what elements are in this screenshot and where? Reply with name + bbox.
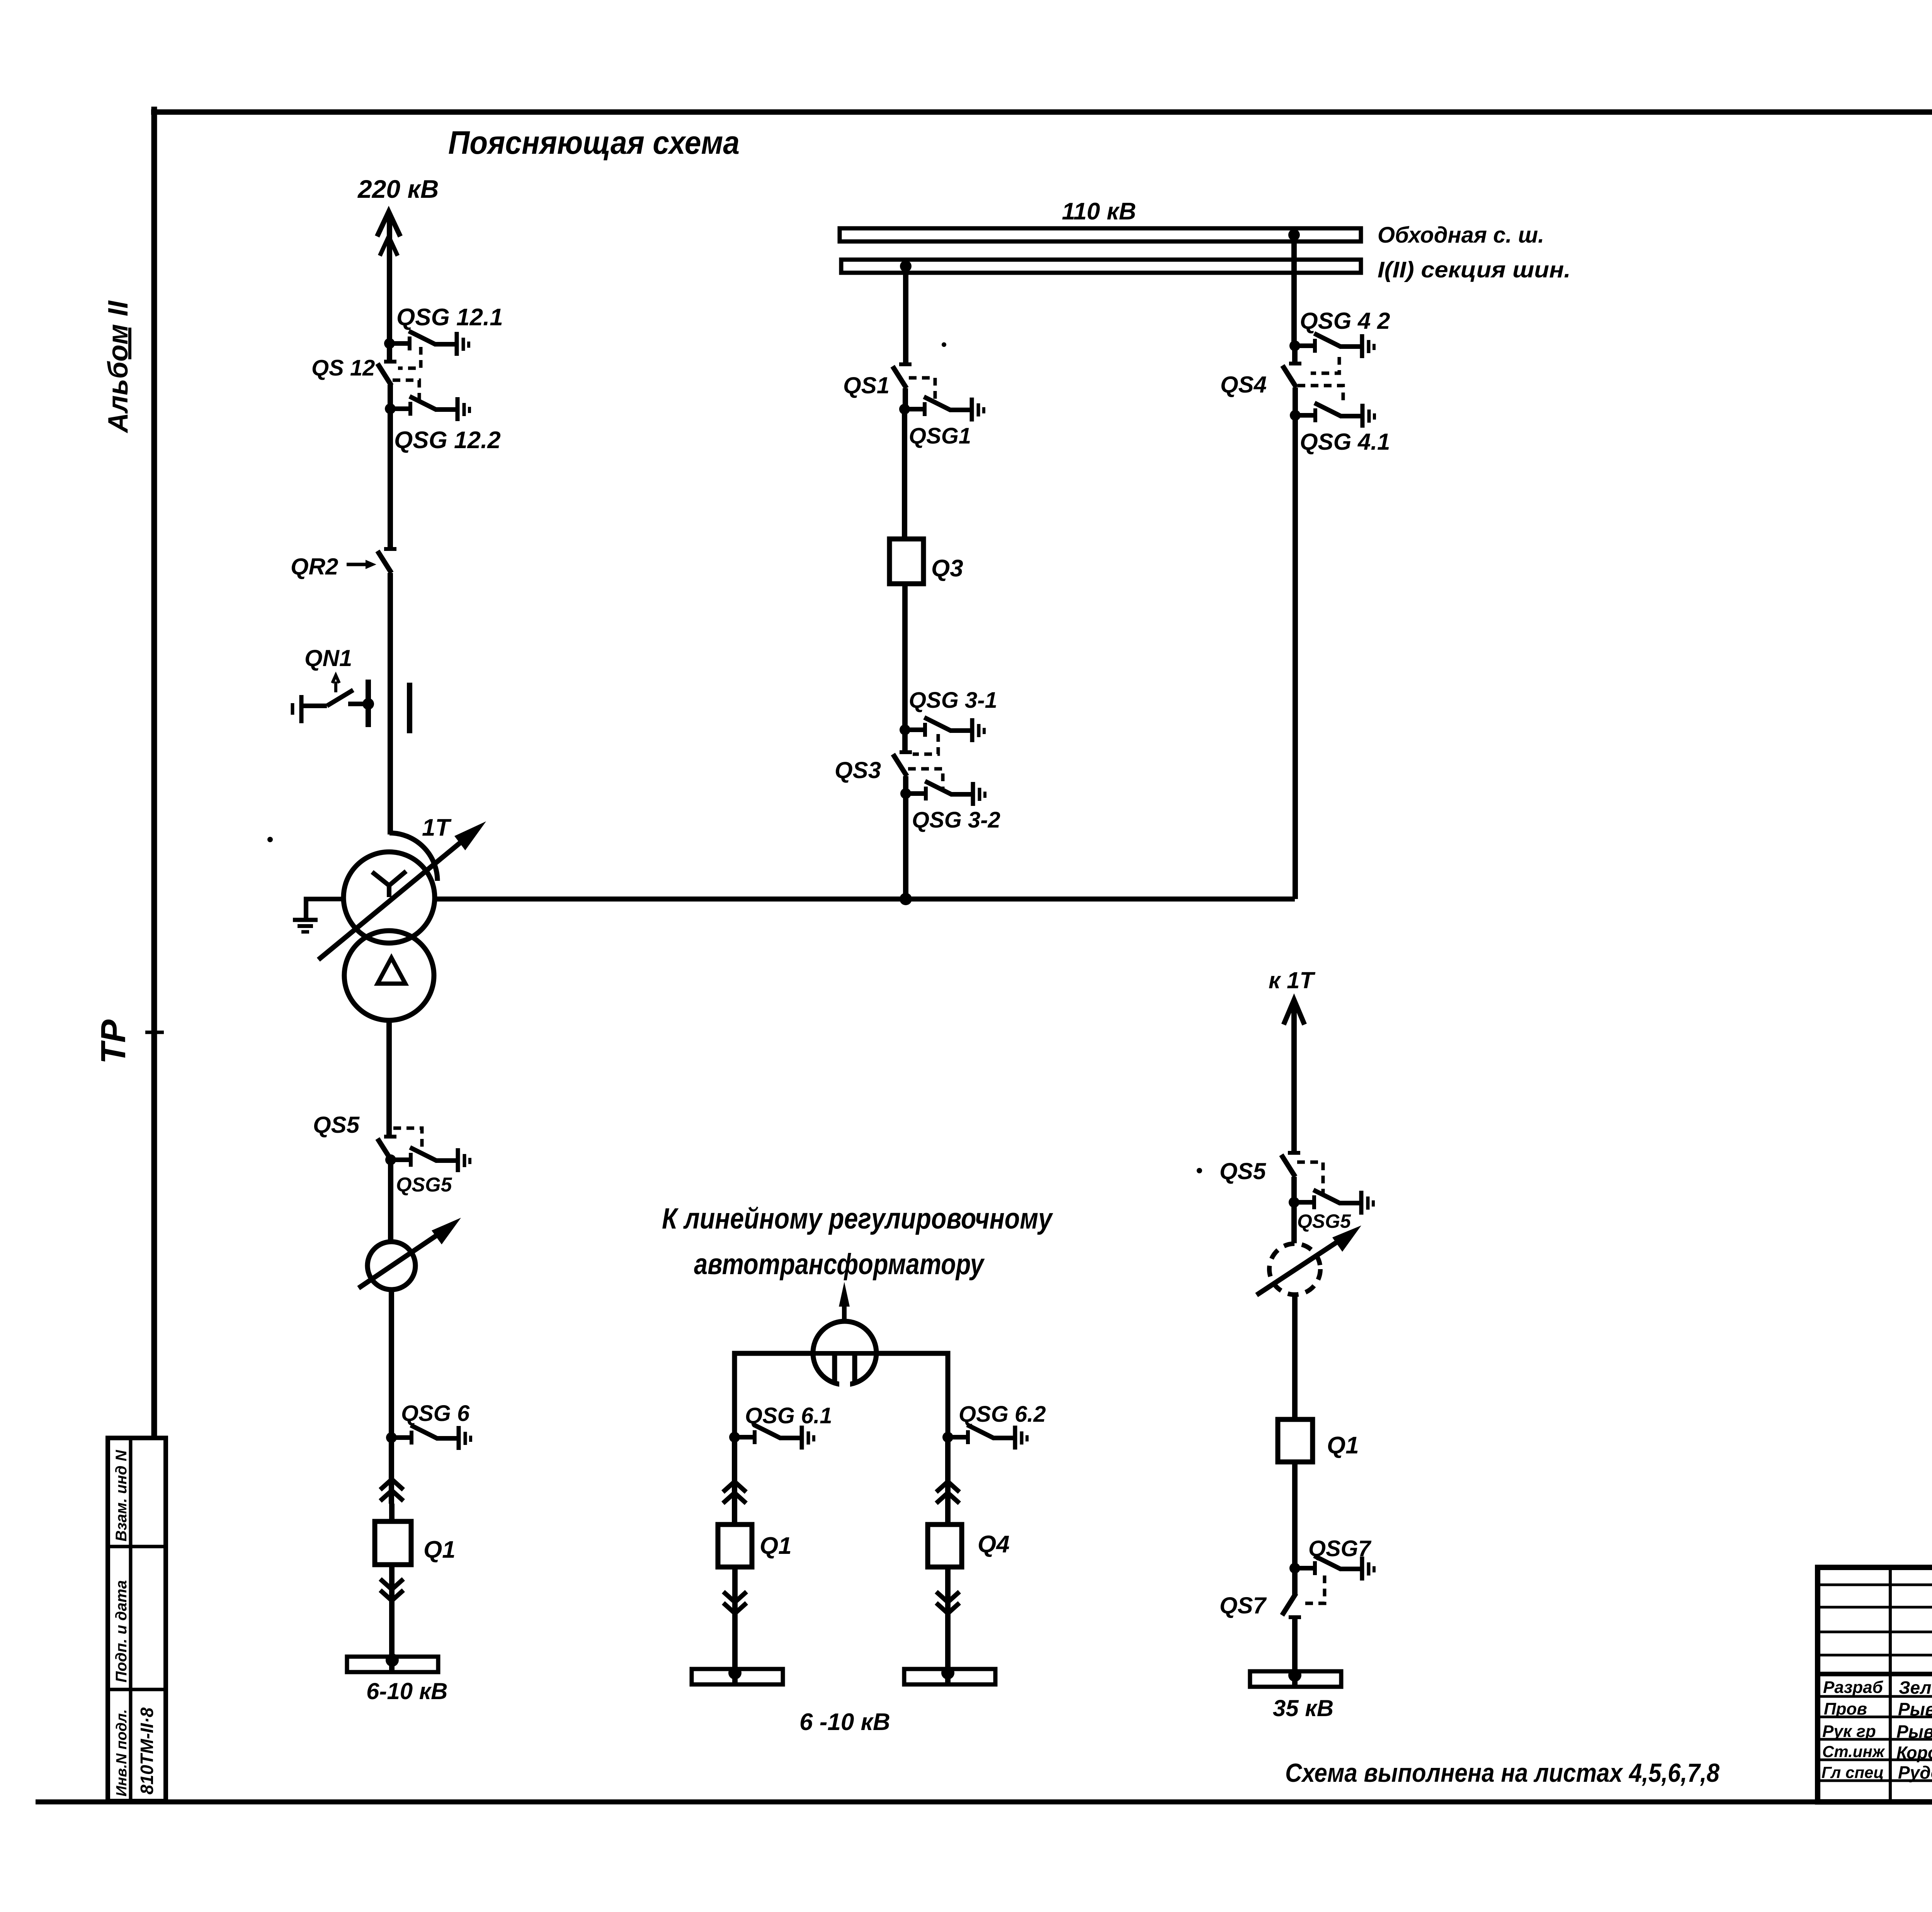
- stray speck: [942, 342, 946, 347]
- breaker Q4: [928, 1525, 962, 1567]
- drawout chevrons upper Q4: [936, 1482, 959, 1503]
- grounding switch QSG5 right: [1289, 1190, 1373, 1215]
- svg-text:QSG 6: QSG 6: [401, 1401, 470, 1426]
- bus 35kV: [1250, 1671, 1341, 1687]
- title block horizontal lines: [1818, 1585, 1932, 1781]
- wire Q1 to lower chevrons: [389, 1565, 395, 1601]
- bus 6-10kV mid-left: [692, 1669, 783, 1684]
- svg-text:QS4: QS4: [1220, 372, 1267, 398]
- svg-text:QS3: QS3: [835, 757, 881, 783]
- left margin stamp table: [108, 1438, 166, 1801]
- svg-text:QS1: QS1: [843, 372, 889, 398]
- short-circuiter QN1: [293, 675, 410, 733]
- wire Q1 right to QSG7: [1292, 1462, 1298, 1568]
- disconnector QS3: [893, 752, 912, 776]
- wire Q1 mid to lower chevrons: [732, 1567, 738, 1613]
- svg-text:810ТМ-II·8: 810ТМ-II·8: [137, 1707, 157, 1795]
- wire to bus mid-right: [945, 1613, 951, 1684]
- drawout chevrons lower Q4: [936, 1592, 959, 1613]
- svg-text:QSG 12.2: QSG 12.2: [394, 427, 501, 454]
- svg-text:Q1: Q1: [1327, 1432, 1359, 1459]
- wire QR2 down to QN1 zone: [388, 573, 393, 834]
- svg-text:I(II) секция шин.: I(II) секция шин.: [1378, 257, 1571, 282]
- svg-text:1Т: 1Т: [422, 814, 452, 841]
- wire to bus mid-left: [732, 1613, 738, 1684]
- wire 1T to 110kV section: [435, 897, 1295, 902]
- underline of II: [128, 328, 131, 359]
- wire QSG4.1 down to tie line corner: [1293, 415, 1298, 899]
- arrow across reactor: [359, 1218, 461, 1288]
- node on section bus: [900, 260, 912, 272]
- svg-text:QSG 4.1: QSG 4.1: [1300, 429, 1390, 455]
- wire Q4 to lower chevrons: [945, 1567, 951, 1613]
- wire QS12 to QSG12.2: [388, 385, 393, 409]
- svg-text:QR2: QR2: [291, 554, 338, 580]
- node on tie line: [900, 893, 912, 905]
- drawout chevrons upper Q1 mid: [723, 1482, 746, 1503]
- svg-text:QS5: QS5: [313, 1112, 360, 1138]
- grounding switch QSG5: [385, 1147, 470, 1172]
- interlock dashes QS1-QSG1: [909, 378, 935, 403]
- ground symbol at 1T: [293, 920, 318, 932]
- svg-text:Инв.N подл.: Инв.N подл.: [114, 1709, 130, 1796]
- svg-text:автотрансформатору: автотрансформатору: [694, 1248, 985, 1281]
- bus 6-10kV mid-right: [904, 1669, 995, 1684]
- svg-text:Q1: Q1: [760, 1533, 792, 1559]
- wire QS4 column from bypass bus: [1291, 235, 1297, 346]
- wire QS7 to 35kV bus: [1292, 1617, 1298, 1686]
- svg-text:QSG 4 2: QSG 4 2: [1300, 308, 1390, 334]
- wire left from winding: [735, 1353, 814, 1437]
- svg-text:к 1Т: к 1Т: [1269, 967, 1315, 993]
- svg-text:QN1: QN1: [304, 645, 352, 671]
- svg-text:QSG1: QSG1: [909, 423, 971, 449]
- wire QSG3-1 to QS3: [902, 730, 908, 752]
- svg-text:Подп. и дата: Подп. и дата: [113, 1580, 130, 1683]
- wire к 1Т down to QS5 right: [1291, 1004, 1297, 1153]
- svg-text:110 кВ: 110 кВ: [1062, 198, 1136, 225]
- stray speck: [267, 837, 273, 842]
- wire QSG1 down to Q3: [902, 409, 907, 539]
- regulating transformer winding: [813, 1321, 876, 1391]
- arrow up к 1Т: [1284, 1000, 1304, 1025]
- wire QSG4.2 to QS4: [1292, 346, 1298, 364]
- wire right from winding: [876, 1353, 948, 1437]
- disconnector QR2: [378, 549, 396, 573]
- title block vertical lines: [1890, 1567, 1932, 1802]
- interlock dashes QS3-QSG3.1: [913, 734, 938, 754]
- disconnector QS4: [1282, 364, 1301, 387]
- wire QSG6.1 to chevrons: [732, 1437, 737, 1506]
- grounding switch QSG1: [899, 397, 984, 421]
- svg-text:Зеличкина: Зеличкина: [1899, 1677, 1932, 1698]
- grounding switch QSG4.1: [1290, 403, 1374, 428]
- svg-text:220 кВ: 220 кВ: [357, 175, 439, 203]
- svg-text:ТР: ТР: [94, 1019, 133, 1064]
- node on bypass bus: [1288, 229, 1300, 241]
- svg-text:35 кВ: 35 кВ: [1273, 1695, 1333, 1721]
- junction dot at 35kV bus: [1288, 1669, 1301, 1682]
- svg-text:QSG 6.2: QSG 6.2: [959, 1402, 1046, 1427]
- interlock dashes QS5-QSG5: [393, 1128, 422, 1154]
- svg-text:Гл спец: Гл спец: [1821, 1763, 1884, 1781]
- reactor with arrow: [367, 1242, 415, 1290]
- breaker Q3: [889, 539, 923, 584]
- grounding switch QSG6: [386, 1425, 471, 1450]
- svg-text:QSG5: QSG5: [396, 1174, 452, 1196]
- disconnector QS7 inverted: [1282, 1593, 1301, 1617]
- svg-text:Альбом II: Альбом II: [103, 300, 134, 433]
- svg-text:QSG5: QSG5: [1297, 1210, 1351, 1232]
- svg-text:QS 12: QS 12: [311, 355, 375, 381]
- grounding switch QSG4.2: [1289, 333, 1374, 358]
- grounding switch QSG12.1: [384, 331, 469, 356]
- svg-text:Рук гр: Рук гр: [1822, 1722, 1876, 1741]
- wire QSG5 right to reactor: [1291, 1202, 1297, 1243]
- svg-text:Рывкина: Рывкина: [1898, 1699, 1932, 1719]
- breaker Q1 mid: [718, 1525, 752, 1567]
- breaker Q1 right: [1278, 1419, 1313, 1462]
- junction dot at mid-left bus: [728, 1666, 742, 1679]
- junction dot at mid-right bus: [941, 1666, 954, 1679]
- wire QSG7 to QS7: [1292, 1568, 1298, 1596]
- svg-text:QS5: QS5: [1219, 1158, 1267, 1184]
- svg-text:QS7: QS7: [1219, 1592, 1267, 1618]
- wire QS5 to QSG5: [388, 1159, 393, 1160]
- interlock dashes QS4-QSG4.2: [1311, 357, 1339, 373]
- svg-text:Рывкина: Рывкина: [1896, 1722, 1932, 1742]
- wire QSG6 to chevrons: [389, 1438, 394, 1504]
- drawout chevrons upper Q1 left: [380, 1479, 403, 1501]
- wire 1T down to QS5: [386, 1020, 392, 1137]
- wire reactor to QSG6: [389, 1290, 394, 1438]
- interlock dashes QS12-QSG12.2: [393, 380, 419, 404]
- wire QS4 to QSG4.1: [1293, 387, 1298, 415]
- stray dot: [1197, 1168, 1202, 1173]
- neutral ground of 1T: [306, 899, 344, 918]
- wire QSG3-2 down to tie line: [903, 794, 908, 899]
- svg-text:Q1: Q1: [423, 1536, 456, 1563]
- arrow pointing to QR2: [347, 560, 376, 569]
- wire QSG12.1 to QS12: [387, 343, 392, 362]
- bus 6-10kV left: [347, 1657, 438, 1672]
- svg-text:Q3: Q3: [931, 555, 963, 582]
- svg-text:6-10 кВ: 6-10 кВ: [366, 1678, 448, 1704]
- svg-text:Поясняющая схема: Поясняющая схема: [448, 124, 740, 161]
- arrow up to 220 kV line: [377, 212, 400, 256]
- drawout chevrons lower Q1 mid: [723, 1592, 747, 1613]
- junction dot at bus: [386, 1654, 399, 1667]
- svg-text:Схема выполнена на листах 4,5,: Схема выполнена на листах 4,5,6,7,8: [1285, 1758, 1719, 1788]
- svg-text:Пров: Пров: [1824, 1700, 1867, 1718]
- disconnector QS12: [378, 362, 396, 386]
- interlock dashes QSG7-QS7: [1301, 1575, 1325, 1603]
- fold mark on left border: [145, 1031, 164, 1034]
- svg-text:Обходная с. ш.: Обходная с. ш.: [1378, 223, 1544, 248]
- wire QS5 to QSG5 right: [1291, 1177, 1297, 1202]
- interlock dashes QS5r-QSG5r: [1297, 1162, 1323, 1196]
- grounding switch QSG6.2: [942, 1425, 1027, 1450]
- disconnector QS1: [893, 364, 912, 388]
- svg-text:К линейному регулировочному: К линейному регулировочному: [662, 1202, 1053, 1235]
- interlock dashes QS4-QSG4.1: [1298, 386, 1343, 402]
- grounding switch QSG6.1: [729, 1425, 814, 1450]
- bypass busbar 110kV: [840, 228, 1361, 241]
- grounding switch QSG7: [1289, 1556, 1374, 1581]
- wire QSG5 to arrester: [388, 1160, 393, 1242]
- wire QS1 to QSG1: [903, 388, 908, 409]
- drawout chevrons lower Q1 left: [380, 1579, 403, 1601]
- wire Q3 down to QSG3-1: [902, 584, 908, 730]
- svg-text:Q4: Q4: [978, 1531, 1010, 1558]
- svg-text:QSG 3-1: QSG 3-1: [909, 688, 997, 713]
- grounding switch QSG3-1: [900, 717, 984, 742]
- grounding switch QSG12.2: [385, 396, 469, 421]
- svg-text:Руденко: Руденко: [1898, 1762, 1932, 1783]
- breaker Q1 left: [375, 1521, 411, 1565]
- wire to Q4: [945, 1506, 951, 1525]
- wire QS1 column from section bus: [903, 266, 908, 364]
- wire to Q1 mid: [732, 1506, 737, 1525]
- disconnector QS5 right: [1281, 1153, 1300, 1177]
- arrow across dashed reactor: [1257, 1225, 1361, 1295]
- svg-text:Разраб: Разраб: [1823, 1678, 1884, 1697]
- svg-text:Взам. инд N: Взам. инд N: [113, 1450, 130, 1541]
- wire to 6-10kV bus: [389, 1601, 395, 1671]
- arrow up to regulating autotransformer: [839, 1282, 850, 1323]
- bus section busbar I(II): [841, 260, 1361, 273]
- svg-text:QSG 3-2: QSG 3-2: [912, 807, 1000, 833]
- svg-text:Коробникова: Коробникова: [1896, 1743, 1932, 1762]
- disconnector QS5: [378, 1137, 396, 1161]
- wire QSG12.2 down to QR2: [388, 409, 393, 549]
- svg-text:Ст.инж: Ст.инж: [1822, 1742, 1885, 1761]
- wire 220kV down to QSG12.1: [387, 216, 392, 343]
- wire QSG6.2 to chevrons: [945, 1437, 951, 1506]
- regulation arrow across 1T: [318, 821, 486, 960]
- wire reactor to Q1 right: [1292, 1295, 1298, 1419]
- interlock dashes QS3-QSG3.2: [908, 769, 943, 790]
- grounding switch QSG3-2: [900, 781, 985, 806]
- wire QS3 to QSG3-2: [903, 776, 908, 794]
- transformer 1T: [344, 833, 437, 1020]
- svg-text:QSG 12.1: QSG 12.1: [396, 304, 503, 331]
- interlock dashes QS12-QSG12.1: [398, 347, 421, 368]
- wire chevrons to Q1: [389, 1504, 395, 1521]
- svg-text:6 -10 кВ: 6 -10 кВ: [799, 1709, 890, 1735]
- title block outer box: [1818, 1567, 1932, 1802]
- dashed reactor circle: [1269, 1244, 1320, 1295]
